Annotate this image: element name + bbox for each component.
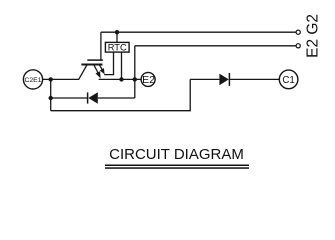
emitter rail to E2 (99, 78, 141, 80)
junction dot freewheel branch (49, 96, 53, 100)
wire C2E1 to collector node (43, 78, 79, 80)
IGBT Q2 body bar (81, 64, 102, 66)
wire RTC right lead down to emitter rail (121, 52, 123, 79)
RTC box (105, 42, 129, 52)
junction dot gate rail to RTC (115, 30, 119, 34)
svg-text:C1: C1 (282, 75, 295, 86)
diode D1 to C1 (190, 73, 279, 86)
wire RTC left lead (L to sense emitter) (104, 52, 113, 75)
terminal G2 (aux, small) (296, 30, 300, 34)
junction dot aux emitter (133, 77, 137, 81)
freewheel diode D2 (51, 92, 135, 104)
svg-text:CIRCUIT DIAGRAM: CIRCUIT DIAGRAM (109, 146, 244, 163)
svg-text:C2E1: C2E1 (24, 77, 41, 84)
junction dot at C2E1 branch (49, 77, 53, 81)
IGBT Q2 emitter diagonal with arrow (94, 65, 101, 79)
junction dot RTC emitter (119, 77, 123, 81)
svg-text:E2: E2 (142, 74, 155, 86)
title CIRCUIT DIAGRAM (105, 146, 249, 169)
wire RTC top lead (116, 32, 118, 42)
terminal C2E1 (23, 70, 42, 89)
bottom rail (51, 79, 191, 110)
IGBT Q2 gate bar (87, 59, 103, 61)
aux emitter wire to E2 aux terminal (135, 45, 296, 47)
gate rail to G2 (101, 31, 296, 33)
IGBT Q2 collector diagonal (79, 65, 87, 80)
svg-text:E2 G2: E2 G2 (304, 14, 321, 58)
terminal C1 (279, 70, 298, 89)
aux emitter vertical wire (134, 46, 136, 98)
IGBT Q2 sense-emitter diagonal with arrow (99, 65, 104, 74)
terminal E2 (141, 72, 155, 86)
IGBT Q2 gate lead up (100, 32, 102, 60)
terminal E2 aux (small) (296, 44, 300, 48)
svg-text:RTC: RTC (108, 43, 127, 53)
wire C2E1 vertical down (50, 79, 52, 110)
